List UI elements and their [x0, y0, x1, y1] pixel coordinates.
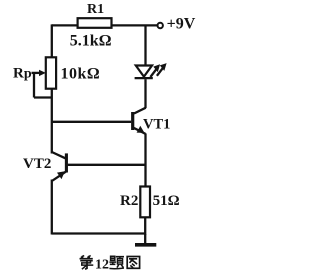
svg-text:5.1kΩ: 5.1kΩ	[70, 33, 112, 50]
svg-text:12: 12	[95, 257, 109, 272]
svg-text:R2: R2	[120, 193, 138, 209]
svg-text:10kΩ: 10kΩ	[61, 65, 101, 82]
svg-text:51Ω: 51Ω	[153, 193, 180, 209]
svg-text:Rp: Rp	[13, 66, 32, 82]
svg-text:R1: R1	[87, 2, 104, 17]
svg-text:+9V: +9V	[167, 16, 196, 33]
svg-text:VT1: VT1	[143, 116, 170, 132]
svg-text:VT2: VT2	[23, 156, 51, 172]
